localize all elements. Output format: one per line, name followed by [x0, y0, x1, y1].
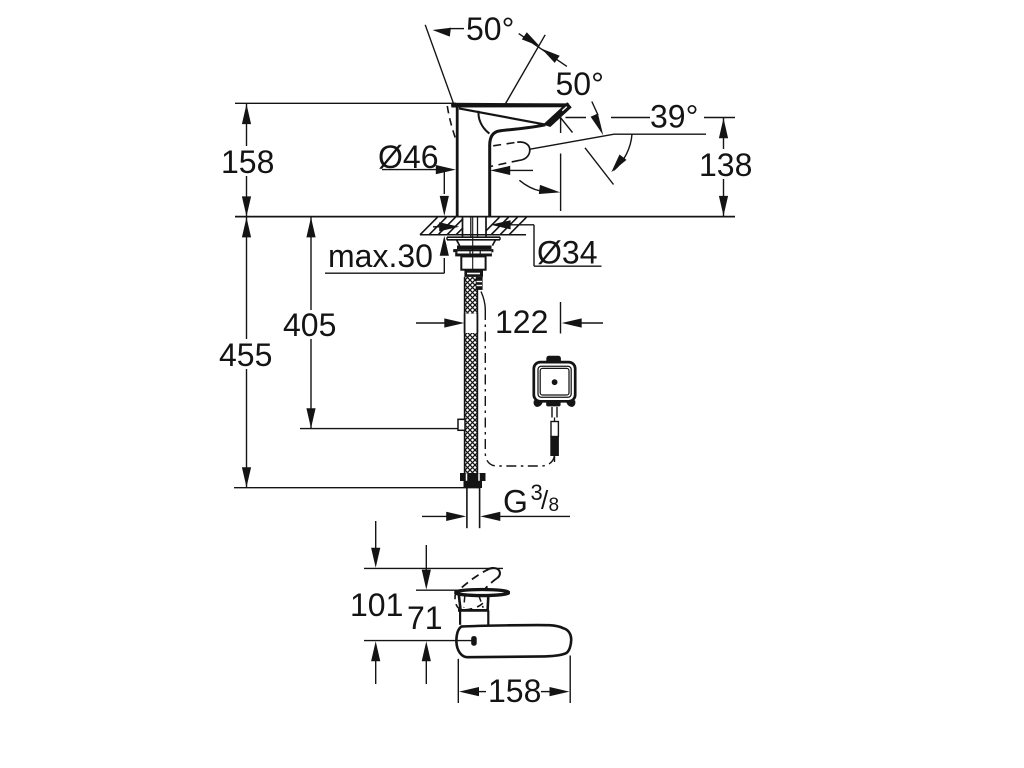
shank cylinder — [461, 217, 485, 270]
control box top tab — [547, 356, 561, 362]
svg-text:50°: 50° — [556, 66, 604, 102]
braided supply hose — [465, 277, 478, 473]
hose clip — [458, 419, 465, 430]
50 deg label (lever) — [556, 66, 604, 102]
deck hatching — [420, 217, 527, 235]
washer under deck — [447, 237, 500, 240]
spout inner fillet curve — [478, 111, 489, 134]
body left edge — [456, 104, 459, 217]
dimension 405 — [283, 217, 466, 428]
50 deg leader arrow (top) — [433, 28, 465, 37]
lever cap underside edge — [459, 108, 545, 124]
neck — [460, 610, 488, 625]
sensor cable plug on hose — [476, 277, 483, 290]
svg-text:158: 158 — [221, 144, 274, 180]
faucet lever cap (top band) — [452, 103, 569, 107]
cable strain relief — [552, 407, 557, 422]
cable connector plug — [550, 422, 559, 463]
escutcheon ellipse — [455, 589, 509, 596]
sensor signal cable (dash-dot) — [481, 292, 555, 467]
dimension 455 — [219, 217, 479, 488]
spout outlet diagonal tick — [560, 117, 573, 133]
top reference line (faucet top level) — [235, 102, 456, 104]
dimension 122 — [416, 302, 603, 340]
top ref line (lever tip) — [364, 567, 503, 569]
39 deg arc with arrow — [611, 134, 632, 172]
svg-text:405: 405 — [283, 307, 336, 343]
spout outlet projection line — [560, 118, 562, 211]
countertop line — [235, 216, 735, 218]
G3/8 connection pipe — [467, 488, 480, 528]
svg-text:101: 101 — [350, 587, 403, 623]
svg-text:71: 71 — [407, 600, 443, 636]
counter underside line — [420, 234, 526, 236]
mounting shank in deck — [463, 217, 487, 237]
50 deg ray right — [505, 35, 545, 104]
dimension 158 (height) — [221, 104, 274, 216]
top ref line (escutcheon) — [416, 589, 458, 591]
dimension 101 — [350, 521, 403, 684]
svg-text:122: 122 — [495, 304, 548, 340]
control box feet — [534, 401, 575, 407]
svg-text:138: 138 — [699, 147, 752, 183]
handle swing arc — [519, 180, 560, 194]
Ø46 leader vertical with arrow — [440, 170, 449, 216]
svg-text:50°: 50° — [466, 11, 514, 47]
handle in open position (dashed capsule) — [491, 142, 530, 166]
dimension 138 — [699, 118, 752, 217]
dimension Ø46 — [378, 139, 533, 175]
svg-text:39°: 39° — [650, 99, 698, 135]
50 deg ray left — [425, 25, 454, 105]
mounting nut — [453, 246, 493, 257]
spout body (top-ish view capsule) — [456, 625, 571, 657]
dimension 158 (length) — [458, 656, 570, 710]
50 deg leader arrow (lever) — [591, 102, 604, 136]
hose end fitting — [460, 473, 486, 488]
dimension G3/8 — [422, 480, 570, 521]
39 deg label — [650, 99, 698, 135]
water stream line — [585, 148, 614, 185]
svg-text:max.30: max.30 — [328, 238, 433, 274]
base column (trapezoid) — [458, 593, 489, 611]
lever alternate position (dashed, left) — [447, 106, 456, 141]
50 deg label (top) — [466, 11, 514, 47]
39 deg horizontal line — [566, 117, 736, 119]
50 deg arc double arrow — [519, 32, 567, 66]
centerline of spout body — [364, 640, 472, 642]
hose nut — [464, 270, 483, 277]
svg-text:Ø34: Ø34 — [537, 235, 597, 271]
fixing cone — [457, 240, 496, 246]
control box (power/sensor unit) — [534, 362, 575, 401]
dimension Ø34 — [433, 220, 602, 270]
spout underside curve and body right edge — [490, 125, 546, 217]
dimension 71 — [407, 545, 443, 684]
lever butt dashed outline — [455, 592, 485, 610]
svg-text:8: 8 — [549, 495, 560, 516]
dimension max.30 — [325, 236, 449, 274]
lever blade dashed (raised position) — [462, 568, 500, 590]
svg-text:G: G — [503, 484, 528, 520]
svg-text:158: 158 — [488, 673, 541, 709]
control box center dot — [552, 379, 558, 385]
spout axis line — [530, 134, 706, 149]
spout mouth (beak with aerator) — [544, 103, 571, 127]
svg-text:455: 455 — [219, 337, 272, 373]
